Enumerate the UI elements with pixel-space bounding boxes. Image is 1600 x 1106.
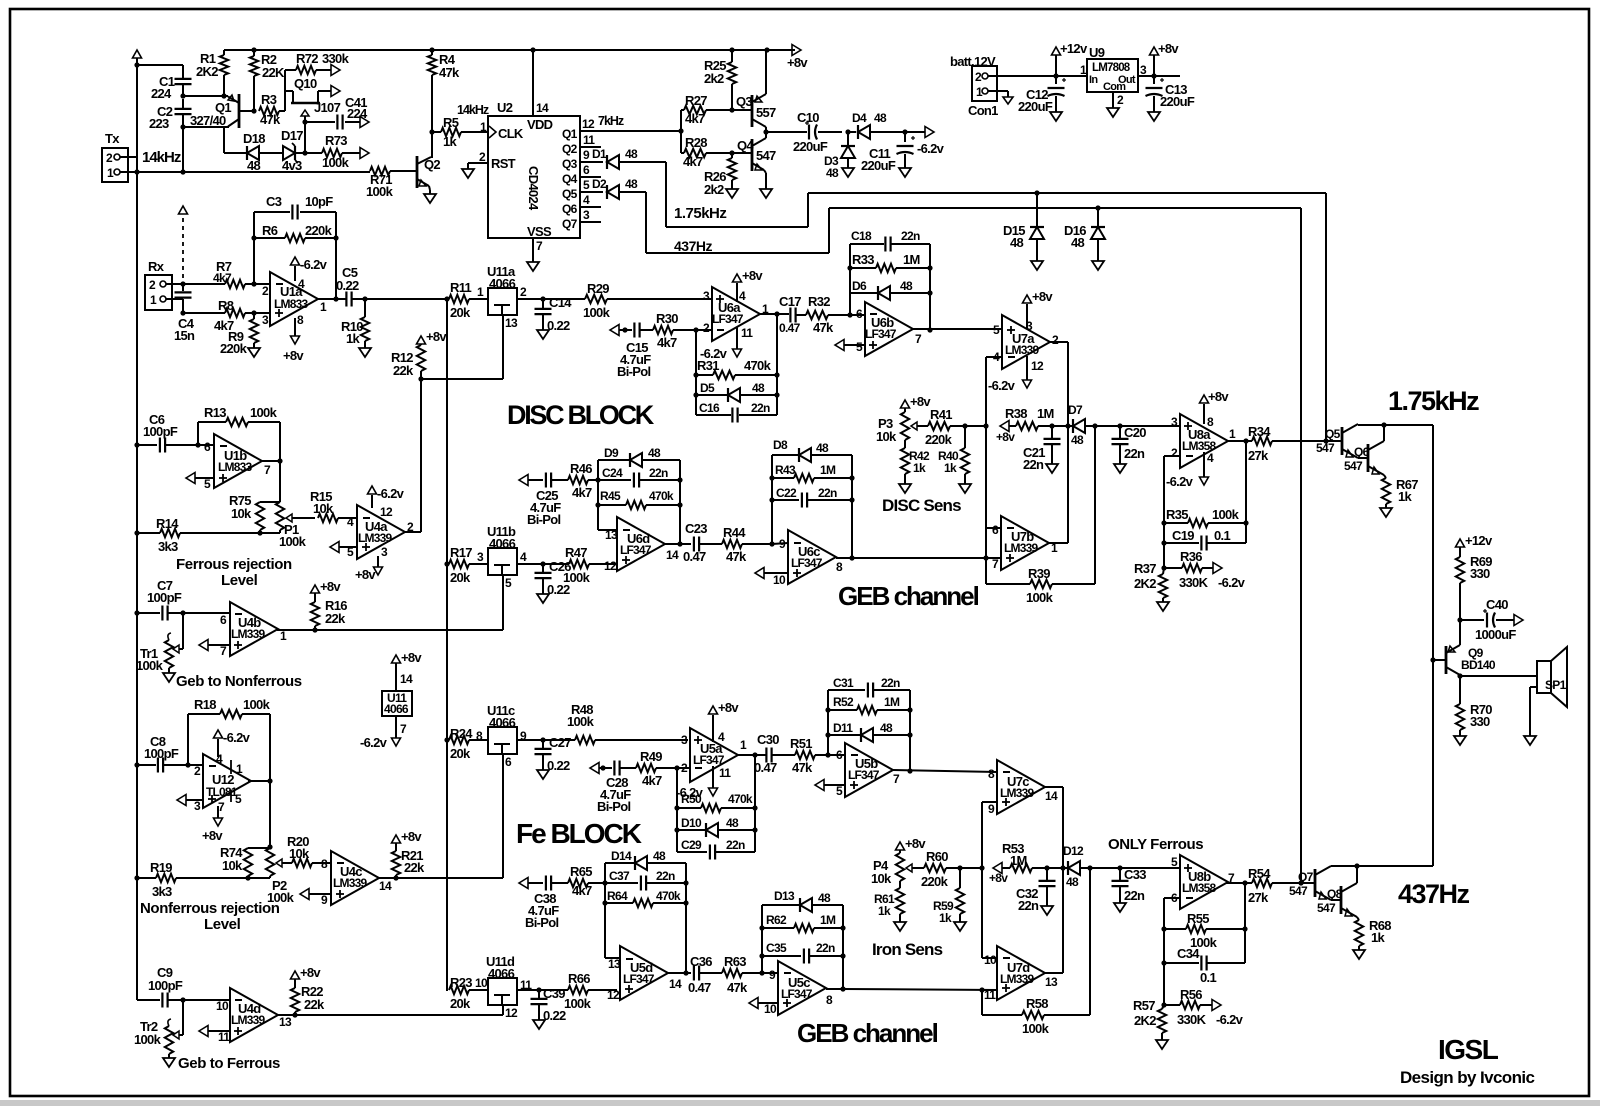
svg-text:22K: 22K <box>262 65 285 80</box>
node junction <box>185 762 190 767</box>
svg-text:48: 48 <box>874 111 887 125</box>
diode D5 <box>696 375 777 402</box>
svg-text:22n: 22n <box>751 401 770 415</box>
svg-text:7: 7 <box>218 800 225 814</box>
svg-text:48: 48 <box>1071 433 1084 447</box>
svg-text:C24: C24 <box>602 466 623 480</box>
capacitor C37 <box>605 869 686 891</box>
node junction <box>1430 657 1435 662</box>
output arrow <box>1514 615 1523 626</box>
node junction <box>362 296 367 301</box>
feedback box U6d left <box>598 460 617 530</box>
svg-text:0.22: 0.22 <box>543 1008 566 1023</box>
op-amp U6a LF347 <box>703 287 769 341</box>
svg-text:2k2: 2k2 <box>704 182 724 197</box>
label GEB channel <box>838 581 979 611</box>
node junction <box>763 129 768 134</box>
node junction <box>1161 926 1247 931</box>
svg-text:3: 3 <box>194 799 201 813</box>
resistor R33 <box>850 244 930 272</box>
resistor R34 <box>1248 424 1342 463</box>
node junction <box>985 527 987 529</box>
label Fe BLOCK <box>516 818 642 849</box>
svg-text:224: 224 <box>151 86 172 101</box>
capacitor C20 <box>1112 425 1147 464</box>
svg-text:100k: 100k <box>243 697 271 712</box>
input arrow U4b pin7 <box>199 640 230 651</box>
svg-text:3: 3 <box>1140 63 1147 77</box>
svg-text:1k: 1k <box>939 911 952 925</box>
output arrow -6.2v <box>1212 1000 1244 1028</box>
diode D2 <box>592 177 646 199</box>
ground <box>1156 1040 1168 1049</box>
diode D17 4v3 <box>281 128 305 173</box>
svg-text:LM833: LM833 <box>274 297 308 311</box>
svg-text:4k7: 4k7 <box>685 111 705 126</box>
resistor R31 <box>696 314 777 379</box>
svg-text:100pF: 100pF <box>148 978 183 993</box>
wire <box>1179 75 1181 77</box>
svg-text:R66: R66 <box>568 971 590 986</box>
resistor R56 <box>1164 963 1212 1027</box>
resistor R28 <box>681 135 732 169</box>
svg-text:4: 4 <box>347 515 354 529</box>
svg-text:R3: R3 <box>261 92 277 107</box>
svg-text:R27: R27 <box>685 93 707 108</box>
ground <box>1031 261 1043 270</box>
wire <box>285 70 293 111</box>
resistor R14 <box>137 516 280 554</box>
power +8v U4a <box>355 556 383 582</box>
svg-text:6: 6 <box>505 755 512 769</box>
svg-text:48: 48 <box>880 721 893 735</box>
svg-text:2: 2 <box>262 284 269 298</box>
svg-text:14: 14 <box>1045 789 1058 803</box>
svg-text:Com: Com <box>1103 81 1126 93</box>
svg-text:R55: R55 <box>1187 911 1209 926</box>
ground <box>533 1020 545 1029</box>
ground <box>1353 950 1365 959</box>
capacitor C9 <box>148 965 230 1008</box>
node junction <box>134 442 139 447</box>
svg-text:48: 48 <box>726 816 739 830</box>
svg-text:C3: C3 <box>266 194 282 209</box>
node junction <box>1457 673 1462 678</box>
svg-text:1: 1 <box>477 285 484 299</box>
svg-text:22n: 22n <box>881 676 900 690</box>
label GEB channel 2 <box>797 1018 938 1048</box>
node junction <box>962 423 988 428</box>
ground <box>726 189 738 198</box>
resistor R70 <box>1456 676 1492 736</box>
resistor R42 <box>901 448 930 484</box>
feedback box U5a <box>677 755 755 852</box>
svg-text:12: 12 <box>604 559 617 573</box>
svg-text:R34: R34 <box>1248 424 1271 439</box>
svg-text:6: 6 <box>220 613 227 627</box>
svg-text:R43: R43 <box>775 463 796 477</box>
wire <box>517 739 688 741</box>
capacitor C11 <box>861 132 915 173</box>
svg-text:2K2: 2K2 <box>196 64 218 79</box>
ground <box>1092 261 1104 270</box>
node junction <box>1323 438 1328 443</box>
resistor R3 <box>259 92 285 127</box>
svg-text:3: 3 <box>262 313 269 327</box>
capacitor C13 <box>1146 76 1195 112</box>
wire U7b out <box>1049 542 1068 544</box>
svg-text:1M: 1M <box>1037 406 1054 421</box>
svg-text:Q6: Q6 <box>562 202 578 216</box>
resistor R74 <box>220 845 270 878</box>
svg-text:LF347: LF347 <box>623 972 655 986</box>
svg-text:R62: R62 <box>766 913 787 927</box>
svg-text:ONLY Ferrous: ONLY Ferrous <box>1108 836 1203 853</box>
svg-text:1k: 1k <box>1371 930 1386 945</box>
wire pin11 junction <box>982 989 997 991</box>
svg-text:2: 2 <box>106 151 113 165</box>
svg-text:R57: R57 <box>1133 998 1155 1013</box>
node junction <box>602 900 688 905</box>
svg-text:LM339: LM339 <box>231 1013 265 1027</box>
node junction <box>134 875 139 880</box>
svg-text:R14: R14 <box>156 516 179 531</box>
wire U5d out <box>668 972 691 974</box>
wire vertical bus <box>446 299 448 991</box>
svg-text:8: 8 <box>988 767 995 781</box>
node junction <box>393 875 398 880</box>
control wire U11a pin13 <box>421 315 503 379</box>
svg-text:R39: R39 <box>1028 566 1050 581</box>
svg-text:C39: C39 <box>543 986 565 1001</box>
svg-text:10k: 10k <box>871 871 892 886</box>
svg-text:11: 11 <box>583 133 595 147</box>
label 7kHz <box>598 114 624 128</box>
svg-text:D11: D11 <box>833 721 853 735</box>
svg-text:+8v: +8v <box>905 836 926 851</box>
svg-text:7: 7 <box>536 239 543 253</box>
node junction <box>302 119 307 124</box>
resistor R58 <box>982 990 1090 1036</box>
svg-text:3: 3 <box>583 208 590 222</box>
node junction <box>622 327 627 332</box>
input arrow C28 <box>590 763 612 774</box>
svg-text:C27: C27 <box>549 735 571 750</box>
diode D9 <box>598 446 680 467</box>
svg-text:R58: R58 <box>1026 996 1048 1011</box>
svg-text:R32: R32 <box>808 294 830 309</box>
ground <box>1046 464 1058 473</box>
node junction <box>1161 520 1248 525</box>
svg-text:7: 7 <box>264 463 271 477</box>
node A <box>180 93 185 98</box>
wire pin6 <box>1164 898 1180 1005</box>
svg-text:4k7: 4k7 <box>213 271 232 285</box>
wire output <box>1226 440 1252 442</box>
op-amp U5a LF347 <box>681 728 747 782</box>
node junction <box>845 129 850 134</box>
resistor R45 <box>598 489 680 509</box>
connector Con1 batt.12V <box>950 54 998 118</box>
svg-text:220uF: 220uF <box>1018 99 1053 114</box>
power arrow +8v <box>1150 41 1180 76</box>
svg-text:7: 7 <box>400 722 407 736</box>
svg-text:100k: 100k <box>564 996 592 1011</box>
power -6.2v U12 <box>214 730 251 757</box>
svg-text:C14: C14 <box>549 295 572 310</box>
capacitor C36 <box>688 954 722 995</box>
node junction <box>729 107 734 155</box>
resistor R73 <box>305 133 360 170</box>
svg-text:100k: 100k <box>567 714 595 729</box>
op-amp U7a LM339 <box>993 315 1059 373</box>
svg-text:48: 48 <box>900 279 913 293</box>
output arrow +8v <box>787 45 808 71</box>
resistor R30 <box>653 311 712 350</box>
node junction <box>1161 565 1166 570</box>
svg-text:47k: 47k <box>439 65 460 80</box>
resistor R27 <box>681 93 732 126</box>
output arrow <box>360 148 369 159</box>
op-amp U1b LM833 <box>204 434 271 491</box>
node junction <box>1242 880 1247 885</box>
svg-text:100k: 100k <box>136 658 164 673</box>
capacitor C31 <box>828 676 910 698</box>
node junction <box>1161 960 1166 965</box>
svg-text:48: 48 <box>1071 235 1085 250</box>
node junction <box>333 296 338 301</box>
svg-text:+8v: +8v <box>283 348 304 363</box>
pin Q2 stub <box>580 133 601 147</box>
svg-text:+8v: +8v <box>202 828 223 843</box>
wire 437Hz rail <box>829 208 1301 883</box>
svg-text:22k: 22k <box>304 997 325 1012</box>
pin Q4 stub <box>580 163 601 177</box>
input arrow U4c pin9 <box>300 889 331 900</box>
svg-text:12: 12 <box>1031 359 1044 373</box>
svg-text:C36: C36 <box>690 954 712 969</box>
svg-text:R28: R28 <box>685 135 707 150</box>
op-amp U7b LM339 <box>992 516 1058 571</box>
resistor R71 <box>366 167 415 199</box>
input arrow U4a pin5 <box>330 542 357 553</box>
svg-text:D12: D12 <box>1063 844 1084 858</box>
node junction <box>312 627 317 632</box>
svg-text:48: 48 <box>752 381 765 395</box>
svg-text:547: 547 <box>1317 901 1336 915</box>
transistor Q8 547 <box>1317 866 1357 917</box>
wire collector rail <box>1358 424 1433 866</box>
svg-text:C30: C30 <box>757 732 779 747</box>
input arrow +8v R38 <box>996 421 1015 445</box>
ground <box>248 348 260 357</box>
capacitor C23 <box>680 521 722 564</box>
svg-text:Q1: Q1 <box>562 127 578 141</box>
wire <box>680 110 682 153</box>
wire <box>137 999 160 1001</box>
node junction <box>693 392 779 397</box>
svg-text:Nonferrous rejection: Nonferrous rejection <box>140 900 280 917</box>
wire <box>1138 75 1180 77</box>
svg-text:8: 8 <box>297 313 304 327</box>
svg-text:4: 4 <box>718 730 725 744</box>
feedback box U5b <box>828 690 910 772</box>
label DISC BLOCK <box>507 400 655 430</box>
svg-text:20k: 20k <box>450 996 471 1011</box>
ground <box>537 770 549 779</box>
svg-text:+12v: +12v <box>1060 41 1088 56</box>
svg-text:Rx: Rx <box>148 259 165 274</box>
svg-text:10k: 10k <box>222 858 243 873</box>
power arrow +8v P4 <box>896 836 927 851</box>
wire <box>183 95 228 97</box>
capacitor C32 <box>1016 868 1056 913</box>
resistor R64 <box>605 889 686 907</box>
ground <box>1454 736 1466 745</box>
power +8v U7a <box>1023 289 1054 328</box>
op-amp U4b LM339 <box>220 602 287 658</box>
svg-text:LF347: LF347 <box>791 556 823 570</box>
power +8v U5a <box>709 700 740 742</box>
node junction <box>849 555 988 560</box>
power -6.2v U4a <box>368 486 405 508</box>
capacitor C39 <box>531 986 566 1023</box>
diode D1 <box>592 147 666 169</box>
capacitor C4 <box>174 284 195 343</box>
node junction <box>1243 438 1248 443</box>
potentiometer P4 10k <box>871 850 918 888</box>
diode D11 <box>828 721 910 742</box>
capacitor C24 <box>598 466 680 488</box>
svg-text:9: 9 <box>321 893 328 907</box>
resistor R8 <box>214 298 270 333</box>
svg-text:7kHz: 7kHz <box>598 114 624 128</box>
resistor R18 <box>188 697 271 781</box>
svg-text:1M: 1M <box>903 252 920 267</box>
svg-text:D14: D14 <box>611 849 632 863</box>
svg-text:D2: D2 <box>592 177 607 191</box>
ground <box>537 594 549 603</box>
wire U6c out <box>836 557 986 559</box>
svg-text:8: 8 <box>836 560 843 574</box>
svg-text:Bi-Pol: Bi-Pol <box>525 915 558 930</box>
svg-text:-6.2v: -6.2v <box>377 486 405 501</box>
svg-text:VDD: VDD <box>527 117 553 132</box>
svg-text:D17: D17 <box>281 128 303 143</box>
node junction <box>267 778 272 783</box>
capacitor C41 <box>337 95 368 130</box>
power arrow dashed <box>179 206 188 282</box>
svg-text:LM339: LM339 <box>1005 343 1039 357</box>
svg-text:27k: 27k <box>1248 890 1269 905</box>
node junction <box>674 765 679 770</box>
wire pin2 <box>1164 456 1180 568</box>
wire VDD <box>532 50 534 116</box>
svg-text:48: 48 <box>1010 235 1024 250</box>
svg-text:1: 1 <box>1229 427 1236 441</box>
node junction <box>257 530 262 535</box>
svg-text:C34: C34 <box>1177 946 1200 961</box>
svg-text:-6.2v: -6.2v <box>300 257 328 272</box>
ground <box>1050 112 1062 121</box>
feedback box U6d right <box>679 460 681 544</box>
ground <box>842 168 854 177</box>
voltage regulator U9 LM7808 <box>1080 45 1147 107</box>
ground U9 com <box>1107 92 1119 117</box>
svg-text:22n: 22n <box>1018 898 1039 913</box>
svg-text:+12v: +12v <box>1465 533 1493 548</box>
node junction <box>251 47 256 52</box>
ground <box>163 673 175 682</box>
ground <box>1114 903 1126 912</box>
capacitor C3 <box>254 194 336 284</box>
capacitor C40 <box>1460 597 1516 642</box>
node junction <box>927 327 932 332</box>
svg-text:C20: C20 <box>1124 425 1146 440</box>
diode D15 <box>1003 193 1044 261</box>
node junction <box>180 610 185 615</box>
label Design by Ivconic <box>1400 1068 1534 1087</box>
resistor R49 <box>636 749 690 788</box>
svg-text:+8v: +8v <box>300 965 321 980</box>
wire left bus <box>136 172 138 1000</box>
wire <box>1244 883 1246 963</box>
svg-text:5: 5 <box>204 477 211 491</box>
svg-text:LM339: LM339 <box>231 627 265 641</box>
svg-text:+8v: +8v <box>718 700 739 715</box>
IC U11 4066 power <box>382 663 413 738</box>
svg-text:220k: 220k <box>925 432 953 447</box>
svg-text:4066: 4066 <box>489 715 516 730</box>
svg-text:C18: C18 <box>851 229 872 243</box>
svg-text:48: 48 <box>1066 875 1079 889</box>
svg-text:9: 9 <box>583 148 590 162</box>
svg-text:R17: R17 <box>450 545 472 560</box>
svg-text:22k: 22k <box>393 363 414 378</box>
wire pin9 <box>982 802 997 958</box>
svg-text:LM339: LM339 <box>358 531 392 545</box>
label Geb to Ferrous <box>178 1055 280 1072</box>
node junction <box>134 610 139 615</box>
resistor R40 <box>938 426 969 484</box>
node junction <box>907 768 912 773</box>
node junction <box>251 108 256 113</box>
svg-text:327/40: 327/40 <box>190 113 226 128</box>
svg-text:1k: 1k <box>346 331 361 346</box>
svg-text:2: 2 <box>1117 93 1124 107</box>
wire <box>137 58 183 172</box>
resistor R24 <box>449 726 488 761</box>
svg-text:220k: 220k <box>305 223 333 238</box>
node junction <box>683 970 688 975</box>
node B <box>180 124 185 129</box>
svg-text:Q3: Q3 <box>562 157 578 171</box>
svg-text:8: 8 <box>476 729 483 743</box>
output arrow -6.2v <box>917 127 945 157</box>
svg-text:220uF: 220uF <box>793 139 828 154</box>
svg-text:330K: 330K <box>1179 575 1209 590</box>
svg-text:100k: 100k <box>366 184 394 199</box>
svg-text:48: 48 <box>625 177 638 191</box>
svg-text:1M: 1M <box>884 695 900 709</box>
wire <box>166 284 225 313</box>
svg-text:14: 14 <box>400 672 413 686</box>
capacitor C29 <box>677 838 755 860</box>
svg-text:Q7: Q7 <box>1298 870 1314 884</box>
resistor R63 <box>722 954 762 995</box>
svg-text:4k7: 4k7 <box>657 335 677 350</box>
svg-text:10: 10 <box>984 953 997 967</box>
